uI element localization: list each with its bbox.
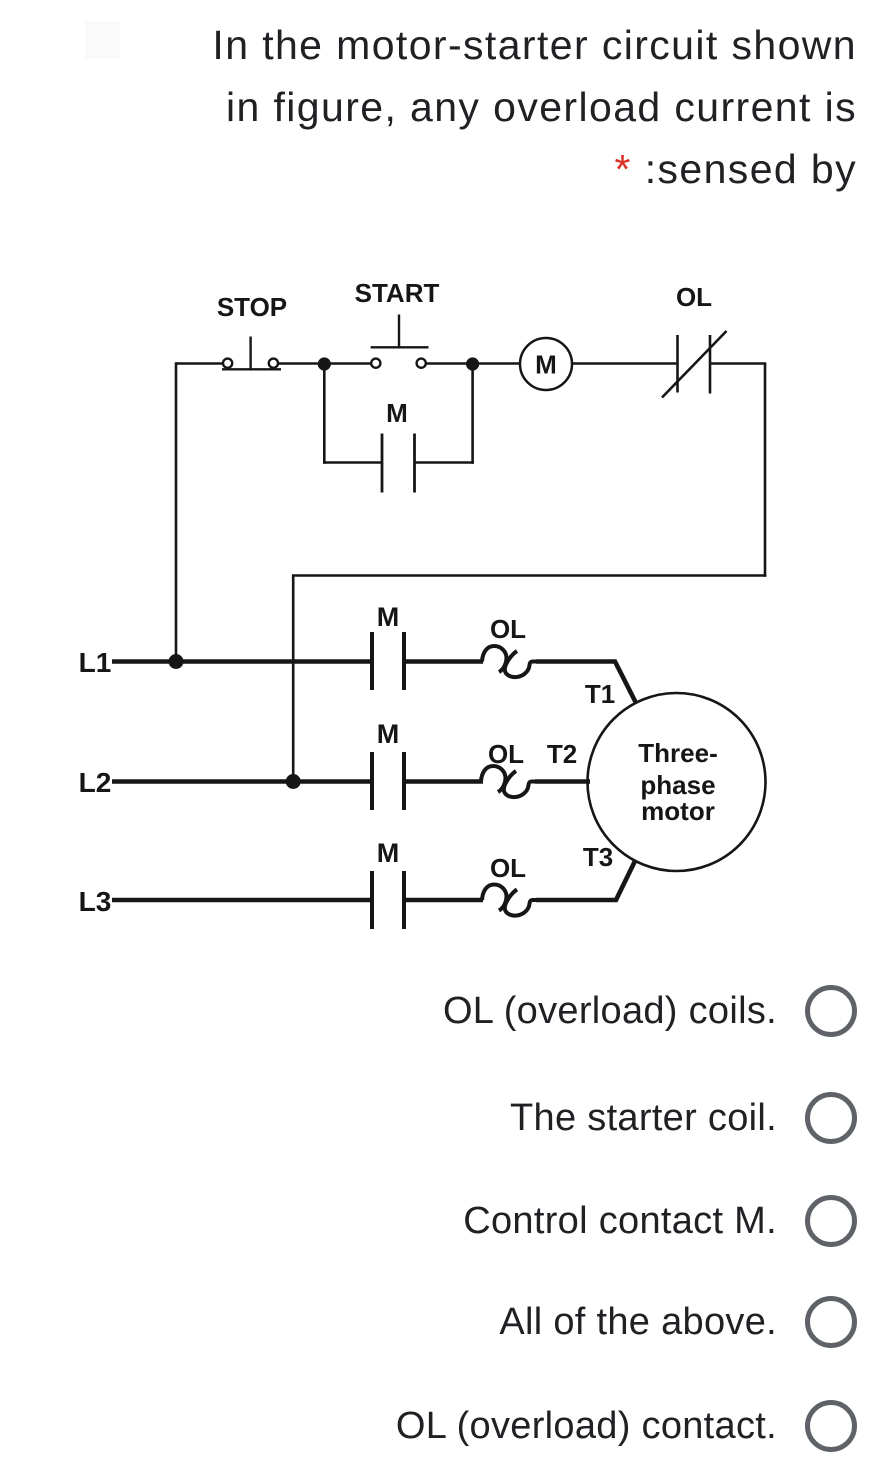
OL heater coil L2: [481, 766, 535, 797]
node A junction dot: [318, 357, 331, 370]
contact M power L3: [372, 871, 404, 929]
OL heater coil L3: [482, 885, 536, 916]
svg-text:OL: OL: [488, 739, 524, 769]
question title: [137, 14, 857, 200]
contact M power L1: [372, 632, 404, 690]
wire: L2 contact to OL heater: [404, 779, 483, 784]
svg-text:START: START: [355, 278, 440, 308]
wire: OL heater to T3 bend: [536, 898, 618, 903]
wire: branch bottom left horizontal: [323, 461, 382, 464]
node: L1 junction dot: [169, 654, 184, 669]
svg-text:OL: OL: [676, 282, 712, 312]
contact M power L2: [372, 752, 404, 810]
svg-text:M: M: [535, 350, 557, 380]
answer option 1: [443, 985, 777, 1037]
OL heater coil L1: [482, 646, 536, 677]
svg-text:T2: T2: [547, 739, 577, 769]
wire: L1 line: [112, 659, 373, 664]
wire: lower horizontal return: [292, 574, 766, 577]
wire: L2 line: [112, 779, 373, 784]
answer option 3: [463, 1195, 777, 1247]
answer option 4: [499, 1296, 777, 1348]
contact M auxiliary (holding contact): [382, 434, 415, 493]
svg-text:M: M: [386, 398, 408, 428]
wire: OL heater to T1 bend: [536, 659, 617, 664]
wire: right vertical down: [764, 364, 767, 577]
pushbutton START (NO): [371, 315, 429, 368]
wire: vertical drop to L2: [292, 576, 295, 782]
node: L2 junction dot: [286, 774, 301, 789]
wire: aux contact to node B riser: [415, 461, 475, 464]
wire: node A to START: [324, 362, 371, 365]
svg-text:L3: L3: [79, 886, 112, 917]
svg-text:M: M: [377, 838, 400, 868]
contact OL (NC overload contact): [662, 331, 727, 398]
wire: node B to coil M: [473, 362, 520, 365]
wire: T3 diagonal into motor: [616, 861, 636, 901]
answer option 2: [510, 1092, 777, 1144]
svg-text:STOP: STOP: [217, 292, 287, 322]
svg-text:M: M: [377, 719, 400, 749]
wire: OL contact to right vertical: [710, 362, 766, 365]
svg-text:T1: T1: [585, 679, 615, 709]
svg-text:T3: T3: [583, 842, 613, 872]
pushbutton STOP (NC): [222, 337, 281, 370]
motor: three-phase motor circle: [588, 693, 766, 871]
svg-text:OL: OL: [490, 853, 526, 883]
wire: START to node B: [426, 362, 473, 365]
wire: OL heater into motor (T2): [535, 779, 590, 784]
wire: left vertical from rail to L1: [175, 362, 178, 661]
svg-text:Three-: Three-: [638, 738, 717, 768]
svg-text:L1: L1: [79, 647, 112, 678]
coil M (starter coil): [520, 338, 572, 390]
node B junction dot: [466, 357, 479, 370]
wire: L3 line: [112, 898, 373, 903]
circuit schematic: [0, 230, 879, 980]
svg-text:M: M: [377, 602, 400, 632]
svg-text:motor: motor: [641, 796, 715, 826]
wire: L1 contact to OL heater: [404, 659, 483, 664]
wire: control rail left segment: [176, 362, 223, 365]
attachment placeholder square: [85, 21, 120, 59]
wire: STOP to node A: [279, 362, 324, 365]
wire: T1 diagonal into motor: [615, 661, 637, 704]
wire: branch node A down to aux contact: [323, 364, 326, 464]
wire: riser up to node B: [471, 364, 474, 464]
svg-text:OL: OL: [490, 614, 526, 644]
wire: L3 contact to OL heater: [404, 898, 483, 903]
wire: coil M to OL contact: [572, 362, 678, 365]
answer option 5: [396, 1400, 777, 1452]
svg-text:L2: L2: [79, 767, 112, 798]
